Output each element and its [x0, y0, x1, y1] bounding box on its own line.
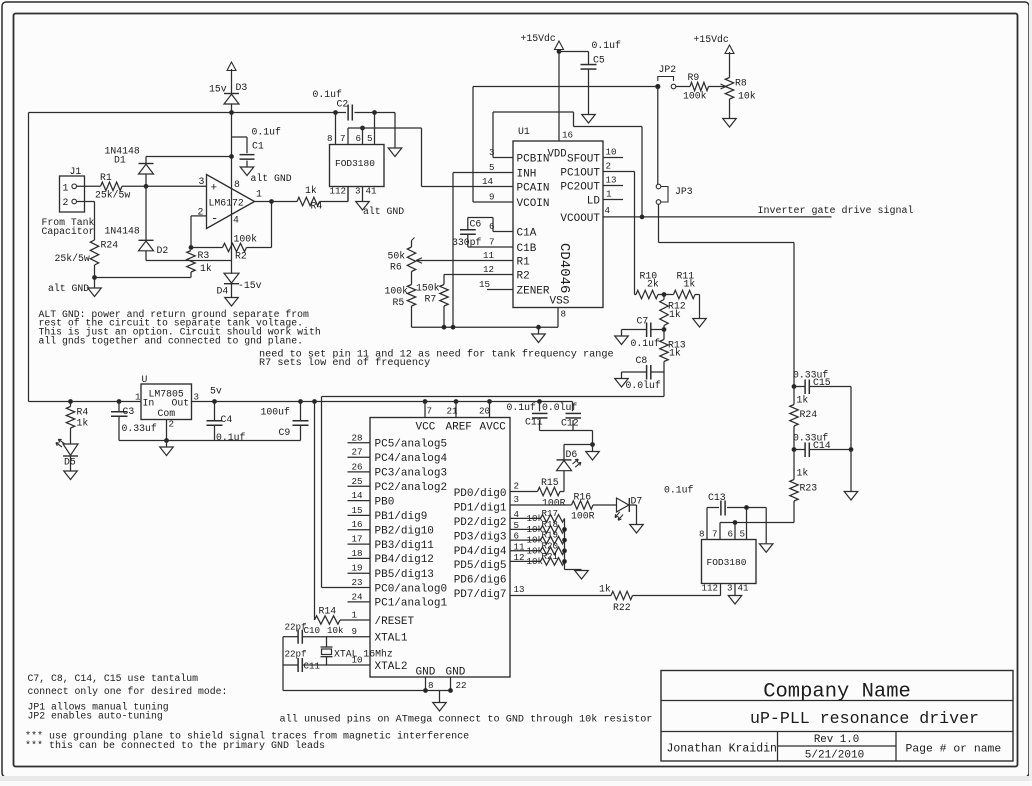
U1 PC1OUT wire to R10: [603, 171, 635, 173]
capacitor C13 0.1uf: [707, 507, 719, 509]
wire R14 to /RESET: [340, 619, 348, 621]
svg-text:C2: C2: [337, 99, 349, 110]
svg-text:R15: R15: [541, 477, 559, 488]
svg-text:0.1uf: 0.1uf: [631, 338, 661, 349]
svg-text:PC2OUT: PC2OUT: [560, 182, 600, 194]
svg-text:SFOUT: SFOUT: [567, 154, 600, 166]
svg-text:112: 112: [330, 186, 347, 197]
svg-text:Rev 1.0: Rev 1.0: [814, 734, 859, 746]
svg-text:R2: R2: [235, 251, 247, 262]
ground right of FOD2: [765, 508, 767, 544]
IC ATmega body: [370, 418, 510, 678]
svg-text:6: 6: [728, 529, 734, 540]
wire feedback to R2: [191, 247, 223, 249]
svg-text:XTAL 16Mhz: XTAL 16Mhz: [334, 649, 393, 660]
node FOD1 pin6/7 wire: [361, 126, 365, 130]
svg-text:5v: 5v: [210, 386, 222, 397]
ATmega pin 26 PC3/analog3: [348, 471, 371, 473]
ATmega pin 19 PB5/dig13: [348, 572, 371, 574]
svg-text:R6: R6: [390, 262, 402, 273]
svg-text:2: 2: [169, 419, 175, 430]
svg-text:11: 11: [514, 541, 526, 552]
svg-text:C7, C8, C14, C15 use tantalum: C7, C8, C14, C15 use tantalum: [28, 673, 199, 684]
ATmega top pin 20 AVCC: [489, 402, 491, 418]
svg-text:20: 20: [479, 406, 490, 417]
ground alt GND below FOD1: [356, 202, 370, 211]
ground below R11: [699, 295, 701, 319]
svg-text:CD4046: CD4046: [556, 243, 572, 293]
ATmega pin 25 PC2/analog2: [348, 485, 371, 487]
svg-text:150k: 150k: [416, 283, 440, 294]
capacitor C15 0.33uf: [794, 386, 805, 388]
svg-text:1k: 1k: [77, 418, 89, 429]
svg-text:10: 10: [606, 147, 617, 158]
wire loop filter to PC0 ADC: [663, 372, 665, 397]
wire C15 right down: [850, 387, 852, 450]
svg-text:alt GND: alt GND: [251, 173, 292, 184]
svg-text:GND: GND: [446, 667, 466, 679]
ground below regulator: [166, 441, 168, 448]
wire J1 pin1 to R1: [77, 185, 101, 187]
ground below C8: [615, 379, 629, 388]
resistor R22 1k: [611, 591, 633, 599]
IC U1 CD4046 body: [513, 141, 603, 308]
ATmega pin 3 PD1 wire: [510, 504, 572, 506]
svg-text:24: 24: [352, 591, 364, 602]
resistor R21 10k: [510, 560, 541, 562]
node FOD1 pin5 junction: [373, 111, 377, 115]
node feedback junction: [189, 246, 193, 250]
resistor R11 1k: [674, 290, 696, 298]
wire 10k common rail: [564, 518, 566, 569]
resistor R24 25k/5w: [90, 240, 98, 265]
resistor R1 25k/5w: [101, 182, 123, 190]
svg-text:100k: 100k: [234, 234, 258, 245]
resistor R9 100k: [690, 82, 709, 90]
svg-text:connect only one for desired m: connect only one for desired mode:: [28, 686, 228, 697]
FOD1 pin 3 bottom to gnd: [362, 187, 364, 202]
svg-text:PD0/dig0: PD0/dig0: [454, 488, 507, 500]
op-amp U LM6172: [207, 175, 255, 229]
svg-text:Inverter gate drive signal: Inverter gate drive signal: [758, 205, 914, 217]
ATmega pin 1 /RESET: [348, 619, 371, 621]
svg-text:4: 4: [233, 215, 239, 226]
svg-text:1k: 1k: [599, 584, 611, 595]
svg-text:21: 21: [447, 406, 459, 417]
wire U1 ground bus: [412, 326, 559, 328]
capacitor C11 22pf (xtal2): [302, 664, 347, 666]
svg-text:U: U: [142, 374, 148, 385]
svg-text:8: 8: [234, 179, 240, 190]
FOD2 pin 3 bottom to gnd: [734, 584, 736, 596]
LED D6: [560, 491, 564, 493]
svg-text:R24: R24: [101, 240, 119, 251]
diode D4: [224, 283, 239, 285]
wire R2 to output node: [247, 247, 272, 249]
wire C2 right to gnd stub: [355, 112, 396, 114]
svg-text:XTAL2: XTAL2: [375, 661, 408, 673]
svg-text:/RESET: /RESET: [375, 616, 415, 628]
svg-text:uP-PLL resonance driver: uP-PLL resonance driver: [750, 709, 979, 728]
wire D2 anode to -15 rail: [146, 260, 232, 262]
svg-text:JP2: JP2: [659, 64, 677, 75]
node C14 junction: [792, 448, 796, 452]
U1 pin 12 R2 wire: [444, 274, 513, 276]
resistor R19 10k: [510, 539, 541, 541]
node R7 bottom: [442, 325, 446, 329]
svg-text:2: 2: [63, 197, 69, 208]
svg-text:1: 1: [135, 392, 141, 403]
title block frame: [661, 671, 1013, 762]
ATmega pin 22 GND: [450, 677, 452, 691]
svg-text:10k: 10k: [327, 625, 344, 636]
svg-text:R4: R4: [77, 407, 89, 418]
diode D2 1N4148: [145, 186, 147, 240]
svg-text:In: In: [143, 398, 155, 409]
svg-text:4: 4: [605, 205, 611, 216]
svg-text:0.1uf: 0.1uf: [592, 40, 622, 51]
resistor R4 1k: [297, 197, 320, 205]
svg-text:1k: 1k: [797, 468, 809, 479]
svg-text:1k: 1k: [797, 395, 809, 406]
svg-text:0.0luf: 0.0luf: [542, 402, 577, 413]
svg-text:PB1/dig9: PB1/dig9: [375, 511, 428, 523]
svg-text:C11: C11: [304, 661, 321, 672]
node D1/C1 tap: [230, 155, 234, 159]
svg-text:1k: 1k: [305, 185, 317, 196]
ATmega pin 2 PD0 wire: [510, 491, 538, 493]
ATmega pin 27 PC4/analog4: [348, 456, 371, 458]
wire R22 to FOD2 pin2: [633, 595, 721, 597]
wire xtal caps to gnd bus: [282, 637, 284, 691]
svg-text:R7: R7: [425, 294, 437, 305]
svg-text:1N4148: 1N4148: [105, 226, 140, 237]
svg-text:PB4/dig12: PB4/dig12: [375, 554, 434, 566]
svg-text:Com: Com: [158, 408, 176, 419]
node D6 gnd junction: [591, 443, 595, 447]
svg-text:LM6172: LM6172: [209, 198, 244, 209]
svg-text:XTAL1: XTAL1: [375, 633, 408, 645]
FOD2 pin 8: [706, 508, 708, 540]
svg-text:AVCC: AVCC: [480, 422, 507, 434]
FOD2 pin 6: [734, 523, 736, 540]
svg-text:R8: R8: [735, 78, 747, 89]
ground below R8: [723, 119, 737, 128]
svg-text:0.1uf: 0.1uf: [507, 402, 537, 413]
U1 pin 15 ZENER stub: [487, 289, 513, 291]
resistor R15 100R: [538, 487, 561, 495]
svg-text:-15v: -15v: [238, 280, 262, 291]
capacitor C5 0.1uf: [559, 51, 589, 53]
svg-text:10k: 10k: [738, 91, 756, 102]
svg-text:Jonathan Kraidin: Jonathan Kraidin: [667, 743, 777, 756]
resistor R14 10k: [314, 402, 316, 621]
svg-text:*** this can be connected to t: *** this can be connected to the primary…: [25, 740, 325, 752]
svg-text:PB0: PB0: [375, 496, 395, 508]
svg-text:0.1uf: 0.1uf: [664, 485, 694, 496]
svg-text:PD3/dig3: PD3/dig3: [454, 531, 507, 543]
capacitor C8 0.01uf: [651, 371, 664, 373]
wire C11/C12 bottoms to gnd: [540, 430, 593, 432]
svg-text:13: 13: [514, 584, 525, 595]
svg-text:R9: R9: [688, 72, 700, 83]
capacitor C2 0.1uf: [347, 105, 349, 121]
svg-text:R1: R1: [517, 257, 531, 269]
jumper JP2: [656, 84, 660, 88]
svg-text:5/21/2010: 5/21/2010: [805, 750, 864, 762]
svg-text:PD4/dig4: PD4/dig4: [454, 546, 507, 558]
svg-text:alt GND: alt GND: [363, 206, 404, 217]
LED D7: [593, 504, 617, 506]
node C13/pin5 junction: [745, 506, 749, 510]
svg-text:9: 9: [352, 626, 358, 637]
svg-text:1k: 1k: [669, 348, 681, 359]
svg-text:R23: R23: [800, 483, 818, 494]
U1 pin 16 VDD +15Vdc: [558, 52, 560, 142]
svg-text:PD6/dig6: PD6/dig6: [454, 575, 507, 587]
resistor R16 100R: [572, 501, 594, 509]
ATmega pin 17 PB3/dig11: [348, 543, 371, 545]
svg-text:PB3/dig11: PB3/dig11: [375, 540, 435, 552]
svg-text:PC2/analog2: PC2/analog2: [375, 482, 448, 494]
U1 LD stub: [603, 199, 623, 201]
svg-text:PB5/dig13: PB5/dig13: [375, 569, 434, 581]
ground below C2 net: [394, 113, 396, 149]
svg-text:Out: Out: [172, 398, 190, 409]
regulator U LM7805: [141, 384, 192, 420]
svg-text:7: 7: [489, 237, 495, 248]
svg-text:C9: C9: [279, 427, 291, 438]
wire op-amp V+ / V- vertical: [231, 113, 233, 274]
svg-text:5: 5: [489, 162, 495, 173]
U1 right stubs SFOUT: [603, 157, 623, 159]
resistor R20 10k: [510, 550, 541, 552]
svg-text:C1: C1: [252, 141, 264, 152]
FOD1 pin 2 bottom: [347, 187, 349, 202]
svg-text:50k: 50k: [388, 251, 406, 262]
crystal XTAL 16Mhz: [326, 637, 328, 647]
svg-text:GND: GND: [416, 667, 436, 679]
wire VCOOUT inverter gate drive signal: [603, 216, 832, 218]
FOD2 pin 5: [746, 508, 748, 540]
svg-text:22: 22: [456, 680, 467, 691]
svg-text:VCOIN: VCOIN: [517, 198, 550, 210]
ground below D7: [630, 525, 644, 534]
node INH bottom: [451, 325, 455, 329]
svg-text:C4: C4: [221, 414, 233, 425]
svg-text:C3: C3: [123, 406, 135, 417]
svg-text:1: 1: [352, 610, 358, 621]
ground below FOD2: [728, 596, 742, 605]
svg-text:C11: C11: [525, 417, 543, 428]
svg-text:PD1/dig1: PD1/dig1: [454, 503, 507, 515]
svg-text:PD2/dig2: PD2/dig2: [454, 517, 507, 529]
node op-amp output: [270, 200, 274, 204]
wire left +15V rail down to regulator: [28, 113, 30, 402]
svg-text:-: -: [211, 212, 218, 226]
ATmega pin 8 GND: [425, 677, 427, 691]
capacitor C4 0.1uf: [213, 400, 217, 404]
U1 PC2OUT stub: [603, 185, 623, 187]
svg-text:1k: 1k: [669, 309, 681, 320]
ATmega pin 18 PB4/dig12: [348, 557, 371, 559]
svg-text:Capacitor: Capacitor: [42, 226, 95, 237]
svg-text:D2: D2: [157, 245, 169, 256]
potentiometer R6 50k: [411, 241, 413, 248]
svg-text:13: 13: [606, 175, 617, 186]
node AVCC pin20 tap: [488, 400, 492, 404]
resistor R10 2k: [636, 290, 658, 298]
svg-text:7: 7: [427, 406, 433, 417]
resistor R5 100k: [407, 285, 415, 307]
capacitor C1: [232, 136, 248, 138]
svg-text:R14: R14: [319, 606, 337, 617]
svg-text:C6: C6: [470, 219, 482, 230]
svg-text:12: 12: [483, 264, 494, 275]
U1 pin 8 VSS: [557, 308, 559, 328]
svg-text:28: 28: [352, 432, 363, 443]
ground below C14/C15 net: [850, 450, 852, 492]
ground below D5: [64, 471, 78, 480]
wire regulator ground bus: [119, 440, 301, 442]
U1 pin 3 PCBIN wire loop to VCOOUT: [493, 157, 513, 159]
svg-text:PC5/analog5: PC5/analog5: [375, 439, 448, 451]
svg-text:R7 sets low end of frequency: R7 sets low end of frequency: [259, 357, 430, 369]
svg-text:C5: C5: [593, 55, 605, 66]
capacitor C3 0.33uf: [117, 400, 121, 404]
svg-text:25k/5w: 25k/5w: [55, 253, 90, 264]
svg-text:100k: 100k: [385, 286, 409, 297]
jumper JP3: [656, 184, 661, 189]
node VCOOUT feedback junction: [640, 215, 644, 219]
svg-text:25: 25: [352, 476, 363, 487]
svg-text:6: 6: [514, 531, 520, 542]
svg-text:ZENER: ZENER: [517, 286, 550, 298]
svg-text:PC3/analog3: PC3/analog3: [375, 468, 448, 480]
svg-text:all gnds together and connecte: all gnds together and connected to gnd p…: [39, 336, 304, 347]
svg-text:4: 4: [514, 509, 520, 520]
U1 pin 11 R1 wire with wiper arrow: [416, 260, 513, 262]
wire D1 cathode to +15 node: [146, 156, 232, 158]
ground below ATmega: [439, 691, 441, 703]
svg-text:R2: R2: [517, 271, 530, 283]
ATmega pin 28 PC5/analog5: [348, 442, 371, 444]
wire +15V top rail: [29, 112, 347, 114]
ATmega pin 16 PB2/dig10: [348, 529, 371, 531]
svg-text:J1: J1: [70, 166, 82, 177]
svg-text:C14: C14: [813, 440, 831, 451]
svg-text:7: 7: [712, 529, 718, 540]
node C14 right junction: [849, 448, 853, 452]
svg-text:PD7/dig7: PD7/dig7: [454, 589, 507, 601]
node C15 junction: [792, 385, 796, 389]
ATmega pin 23 PC0/analog0: [348, 587, 371, 589]
svg-text:U1: U1: [518, 126, 530, 137]
wire J1 pin2 to R24: [77, 201, 95, 203]
wire op-amp - input: [191, 215, 207, 217]
svg-text:PC1/analog1: PC1/analog1: [375, 598, 448, 610]
svg-text:3: 3: [514, 494, 520, 505]
svg-text:100R: 100R: [542, 498, 566, 509]
svg-text:D1: D1: [114, 155, 126, 166]
svg-text:3: 3: [727, 583, 733, 594]
svg-text:100k: 100k: [683, 91, 707, 102]
connector J1: [60, 176, 85, 212]
svg-text:6: 6: [356, 133, 362, 144]
svg-text:+15Vdc: +15Vdc: [521, 33, 556, 44]
svg-text:JP3: JP3: [675, 186, 693, 197]
diode D1 1N4148: [139, 163, 154, 165]
svg-text:14: 14: [352, 490, 364, 501]
svg-text:17: 17: [352, 534, 363, 545]
ground below U1: [538, 327, 540, 334]
svg-text:100uf: 100uf: [261, 407, 291, 418]
svg-text:R22: R22: [613, 602, 631, 613]
svg-text:C13: C13: [708, 492, 726, 503]
svg-text:R1: R1: [100, 172, 112, 183]
svg-text:3: 3: [194, 392, 200, 403]
node C11 tap: [538, 400, 542, 404]
svg-text:C10: C10: [304, 625, 321, 636]
wire op-amp output to R4: [255, 201, 298, 203]
svg-text:Page # or name: Page # or name: [906, 744, 1002, 756]
svg-text:VDD: VDD: [548, 149, 567, 161]
ground below D4: [225, 298, 239, 307]
FOD1 pin 8: [335, 113, 337, 145]
node FOD2 pin6 junction: [733, 521, 737, 525]
resistor R4 1k (led): [69, 400, 73, 404]
capacitor C10 22pf: [302, 636, 347, 638]
svg-text:9: 9: [489, 192, 495, 203]
svg-text:PD5/dig5: PD5/dig5: [454, 560, 507, 572]
svg-text:VCOOUT: VCOOUT: [560, 213, 600, 225]
node AREF pin21 tap: [454, 400, 458, 404]
svg-text:5: 5: [740, 529, 746, 540]
svg-text:+15Vdc: +15Vdc: [694, 34, 729, 45]
svg-text:112: 112: [702, 583, 719, 594]
node VCC pin7 tap: [423, 400, 427, 404]
svg-text:16: 16: [562, 130, 573, 141]
svg-text:C12: C12: [561, 418, 579, 429]
svg-text:C8: C8: [636, 355, 648, 366]
svg-text:R24: R24: [800, 409, 818, 420]
node R12/C7 junction: [662, 328, 666, 332]
ground alt GND below C1: [240, 167, 254, 176]
svg-text:0.0luf: 0.0luf: [626, 380, 661, 391]
wire R4 to FOD3180 pin2: [320, 201, 349, 203]
svg-text:1k: 1k: [200, 263, 212, 274]
wire regulator input: [29, 401, 142, 403]
svg-text:15v: 15v: [209, 84, 227, 95]
wire R9 to R8 wiper arrow: [709, 86, 725, 88]
svg-text:330pf: 330pf: [452, 237, 482, 248]
U1 pin 5 INH wire: [453, 172, 513, 174]
svg-text:25k/5w: 25k/5w: [95, 190, 130, 201]
svg-text:VSS: VSS: [550, 296, 570, 308]
node R14 tap: [313, 400, 317, 404]
svg-text:R5: R5: [393, 297, 405, 308]
svg-text:PB2/dig10: PB2/dig10: [375, 526, 434, 538]
ATmega top pin 21 AREF: [455, 402, 457, 418]
svg-text:12: 12: [514, 552, 525, 563]
svg-text:18: 18: [352, 548, 363, 559]
svg-text:R16: R16: [574, 492, 592, 503]
svg-text:D3: D3: [236, 82, 248, 93]
svg-text:0.1uf: 0.1uf: [252, 127, 282, 138]
svg-text:C1A: C1A: [517, 228, 537, 240]
wire 5v output rail: [192, 401, 573, 403]
svg-text:FOD3180: FOD3180: [335, 158, 375, 169]
